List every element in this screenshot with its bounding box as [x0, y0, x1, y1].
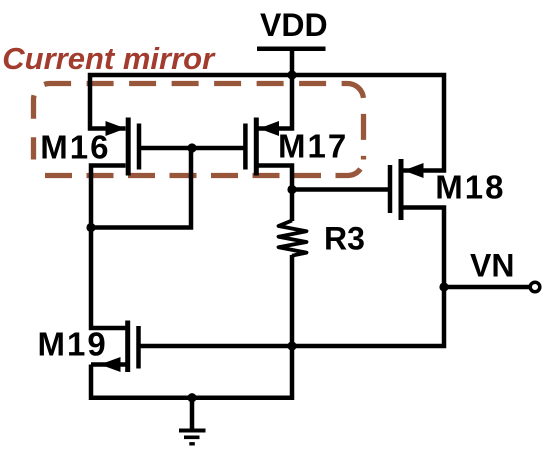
svg-text:R3: R3 [324, 220, 365, 256]
svg-text:VDD: VDD [260, 7, 328, 43]
svg-text:M18: M18 [435, 168, 505, 205]
svg-text:M19: M19 [38, 326, 108, 363]
svg-text:M17: M17 [278, 128, 348, 165]
svg-text:Current mirror: Current mirror [2, 41, 216, 76]
svg-text:M16: M16 [40, 129, 110, 166]
svg-text:VN: VN [470, 248, 514, 284]
